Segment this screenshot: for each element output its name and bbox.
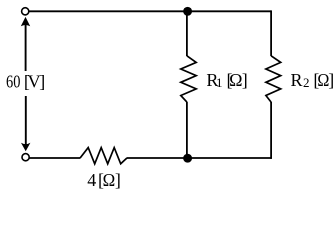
svg-text:]: ] — [242, 70, 248, 90]
svg-text:R: R — [291, 70, 303, 90]
label 60 [V] — [6, 72, 45, 92]
svg-text:]: ] — [115, 170, 121, 190]
node junction top — [183, 7, 192, 16]
svg-text:1: 1 — [216, 75, 223, 90]
svg-text:60: 60 — [6, 72, 20, 92]
resistor 4 ohm — [80, 148, 127, 164]
resistor R1 — [181, 56, 196, 102]
svg-text:2: 2 — [303, 75, 310, 90]
svg-text:4: 4 — [87, 170, 96, 190]
wire right vertical top (R2 top lead) — [270, 10, 272, 56]
node junction bottom — [183, 154, 192, 163]
wire bottom right segment — [127, 157, 272, 159]
terminal circle top-left — [22, 8, 29, 15]
voltage source arrowhead up — [21, 17, 30, 26]
svg-text:]: ] — [39, 72, 45, 92]
label 4 [ohm] — [87, 170, 121, 190]
wire top horizontal — [29, 10, 271, 12]
voltage source arrowhead down — [21, 143, 30, 152]
svg-text:Ω: Ω — [229, 70, 242, 90]
resistor R2 — [266, 56, 281, 102]
wire R1 bottom lead — [186, 102, 188, 158]
voltage source arrow shaft lower — [25, 96, 27, 149]
voltage source arrow shaft upper — [25, 20, 27, 71]
wire bottom left segment — [29, 157, 80, 159]
terminal circle bottom-left — [22, 154, 29, 161]
label R1 [ohm] — [206, 70, 247, 90]
svg-text:Ω: Ω — [103, 170, 116, 190]
label R2 [ohm] — [291, 70, 333, 90]
svg-text:]: ] — [328, 70, 333, 90]
wire R1 top lead — [186, 11, 188, 56]
wire R2 bottom lead — [270, 102, 272, 159]
